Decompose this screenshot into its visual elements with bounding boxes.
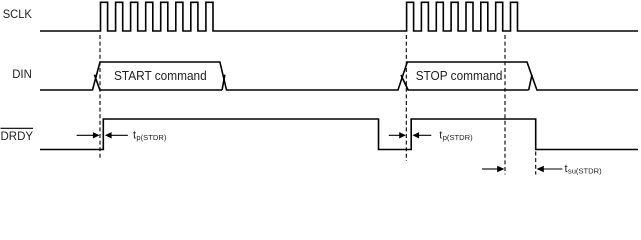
wire DIN STOP-bubble right crossover xyxy=(529,75,532,90)
svg-text:DIN: DIN xyxy=(12,69,32,81)
svg-text:START command: START command xyxy=(114,69,207,83)
wire tp(STDR) measure arrow left (second) xyxy=(389,134,400,136)
wire SCLK waveform (two 8-pulse bursts) xyxy=(40,2,638,31)
wire tp(STDR) measure arrow right (first) xyxy=(111,134,128,136)
wire tsu(STDR) measure arrow right xyxy=(543,168,562,170)
svg-text:p(STDR): p(STDR) xyxy=(443,133,473,142)
wire DIN STOP-bubble left crossover xyxy=(401,75,408,91)
wire dashed timing line 2 (STOP burst first rising edge) xyxy=(405,35,407,161)
wire DIN STOP-bubble bottom edge xyxy=(408,89,528,91)
wire tp(STDR) measure arrow left (first) xyxy=(77,134,94,136)
wire tp(STDR) measure arrow right (second) xyxy=(419,134,432,136)
svg-text:su(STDR): su(STDR) xyxy=(568,166,602,175)
wire DIN START-bubble bottom edge xyxy=(100,89,222,91)
svg-text:DRDY: DRDY xyxy=(1,131,34,143)
wire DRDY waveform xyxy=(40,119,638,150)
wire tsu(STDR) measure arrow left xyxy=(482,168,498,170)
svg-text:p(STDR): p(STDR) xyxy=(136,133,166,142)
wire dashed timing line 3 (last SCLK rising edge) xyxy=(504,35,506,175)
wire dashed extension of DRDY falling edge xyxy=(535,152,537,175)
wire DIN START-bubble right crossover xyxy=(222,75,225,90)
wire dashed timing line 1 (first SCLK rising edge) xyxy=(99,35,101,159)
svg-text:STOP command: STOP command xyxy=(416,69,503,83)
wire DIN waveform main line with bus envelopes xyxy=(40,62,638,90)
svg-text:SCLK: SCLK xyxy=(3,9,33,21)
wire DIN START-bubble left crossover xyxy=(94,75,100,91)
